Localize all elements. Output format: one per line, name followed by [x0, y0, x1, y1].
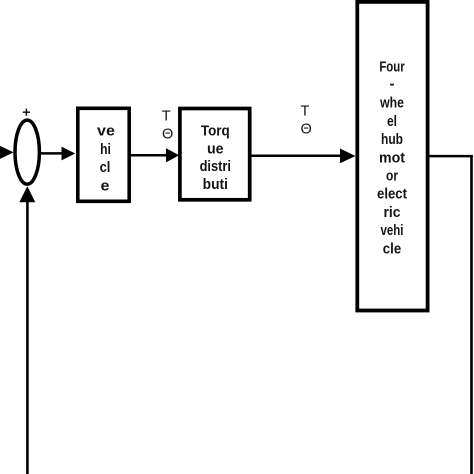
svg-text:ve: ve	[97, 123, 115, 140]
svg-text:Θ: Θ	[301, 121, 312, 137]
feedback wire down right edge	[470, 155, 473, 474]
svg-text:distri: distri	[200, 158, 231, 175]
svg-text:elect: elect	[377, 186, 407, 203]
svg-text:mot: mot	[379, 149, 405, 166]
svg-text:el: el	[387, 113, 397, 130]
svg-text:or: or	[386, 168, 398, 185]
svg-text:ric: ric	[384, 204, 401, 221]
svg-text:Torq: Torq	[201, 123, 230, 140]
svg-text:Four: Four	[379, 58, 404, 75]
svg-text:T: T	[162, 109, 171, 125]
plus sign label	[23, 109, 30, 116]
svg-text:-: -	[390, 75, 395, 92]
torque box label	[200, 123, 231, 193]
svg-text:buti: buti	[203, 176, 228, 193]
svg-text:cle: cle	[383, 240, 401, 257]
wire vehicle box to torque box	[130, 154, 167, 157]
svg-text:e: e	[101, 177, 110, 194]
signal label T theta (right)	[300, 104, 311, 138]
svg-text:whe: whe	[379, 95, 404, 112]
svg-text:Θ: Θ	[162, 126, 173, 142]
feedback wire up left side	[26, 201, 29, 474]
arrowhead into torque box	[166, 148, 179, 162]
signal label T theta (left)	[162, 109, 173, 143]
four-wheel box label	[377, 58, 407, 257]
svg-text:hub: hub	[381, 131, 403, 148]
vehicle box label	[97, 123, 115, 195]
svg-text:ue: ue	[207, 140, 224, 157]
svg-text:cl: cl	[100, 159, 111, 176]
summing junction	[15, 120, 39, 184]
svg-text:vehi: vehi	[381, 222, 404, 239]
arrowhead into vehicle box	[62, 147, 76, 161]
wire summing junction to vehicle box	[40, 152, 63, 155]
torque distribution box	[180, 109, 250, 200]
svg-text:T: T	[300, 104, 309, 120]
arrowhead into four-wheel box	[340, 149, 356, 164]
arrowhead into summing junction from below	[19, 186, 35, 202]
svg-text:hi: hi	[100, 141, 111, 158]
input arrowhead	[0, 146, 14, 159]
vehicle box	[78, 108, 129, 201]
wire torque box to four-wheel box	[250, 154, 341, 157]
four-wheel hub motor electric vehicle box	[357, 2, 427, 311]
output wire from four-wheel box	[430, 155, 473, 158]
